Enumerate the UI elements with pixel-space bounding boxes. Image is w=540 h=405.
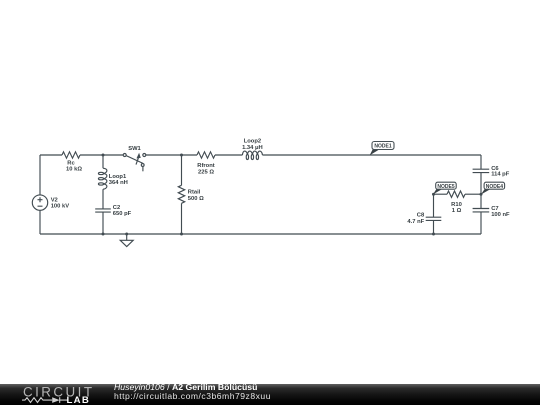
svg-text:100 kV: 100 kV	[51, 203, 70, 209]
svg-text:SW1: SW1	[128, 146, 141, 152]
resistor Rfront	[197, 152, 215, 158]
wire Loop1 to C2	[102, 189, 104, 209]
footer title	[114, 383, 257, 392]
inductor Loop1	[103, 168, 107, 189]
wire bottom rail	[40, 233, 481, 235]
wire left vertical upper	[39, 155, 41, 195]
node NODE1 callout	[370, 142, 394, 156]
svg-text:225 Ω: 225 Ω	[198, 169, 214, 175]
junction dots	[102, 154, 483, 236]
svg-text:1 Ω: 1 Ω	[452, 208, 462, 214]
node NODE5 callout	[433, 182, 456, 194]
svg-text:650 pF: 650 pF	[113, 211, 132, 217]
wire node5 branch to C8	[433, 194, 435, 217]
wire Rfront to Loop2	[215, 154, 242, 156]
inductor Loop2	[242, 151, 262, 155]
labels	[51, 138, 510, 225]
resistor R10	[434, 193, 448, 195]
svg-text:Rtail: Rtail	[188, 189, 201, 195]
wire Loop2 to right corner	[262, 154, 481, 156]
svg-text:1.34 μH: 1.34 μH	[242, 145, 263, 151]
CircuitLab logo	[0, 383, 100, 405]
svg-text:NODE4: NODE4	[486, 184, 503, 190]
wire left vertical lower	[39, 210, 41, 234]
wire C6 to node row	[480, 173, 482, 209]
svg-text:R10: R10	[451, 202, 462, 208]
svg-text:100 nF: 100 nF	[491, 212, 510, 218]
resistor Rtail	[178, 185, 184, 203]
wire Rtail to bottom	[181, 203, 183, 234]
capacitor C7	[473, 209, 490, 212]
voltage source V2	[32, 195, 47, 210]
svg-text:Rfront: Rfront	[197, 163, 214, 169]
wire C2 to bottom	[102, 212, 104, 234]
capacitor C6	[473, 169, 490, 172]
wire C7 to bottom	[480, 212, 482, 234]
wire branch to Loop1	[102, 155, 104, 168]
svg-text:114 pF: 114 pF	[491, 172, 510, 178]
svg-text:10 kΩ: 10 kΩ	[66, 167, 82, 173]
svg-text:364 nH: 364 nH	[109, 180, 128, 186]
svg-text:C8: C8	[417, 212, 425, 218]
ground	[126, 234, 128, 240]
footer bar	[0, 384, 540, 405]
resistor Rc	[62, 152, 80, 158]
wire Rc to SW1	[80, 154, 123, 156]
svg-text:NODE1: NODE1	[374, 144, 391, 150]
capacitor C2	[95, 209, 111, 212]
svg-text:500 Ω: 500 Ω	[188, 196, 204, 202]
wire C8 to bottom	[433, 220, 435, 234]
footer url	[114, 392, 271, 401]
wire right vertical upper to C6	[480, 155, 482, 169]
node NODE4 callout	[481, 182, 505, 194]
svg-text:LAB: LAB	[67, 395, 91, 405]
switch SW1	[123, 154, 126, 157]
svg-text:4.7 nF: 4.7 nF	[407, 219, 424, 225]
svg-text:Loop2: Loop2	[244, 138, 261, 144]
capacitor C8	[426, 217, 442, 220]
wire SW1 to Rfront	[146, 154, 197, 156]
svg-text:NODE5: NODE5	[437, 184, 454, 190]
wire branch to Rtail	[181, 155, 183, 185]
wire top-left from V2 to Rc	[40, 154, 62, 156]
